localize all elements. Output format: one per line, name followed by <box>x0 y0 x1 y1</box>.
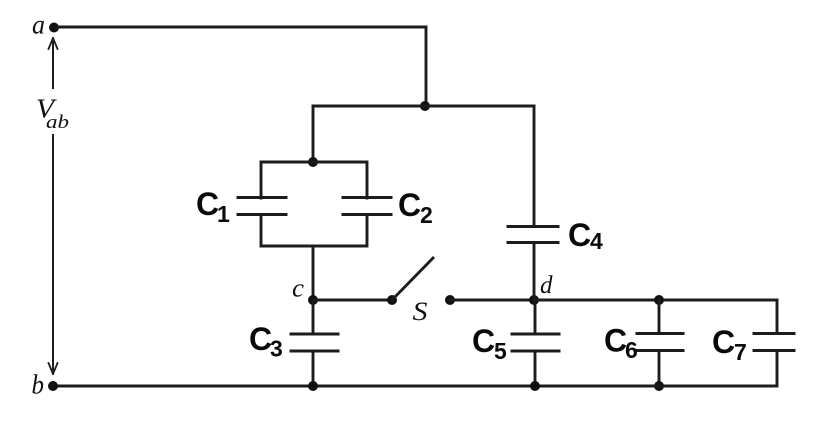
wire down to parallel combo <box>312 106 315 162</box>
svg-text:C: C <box>568 217 591 253</box>
svg-text:2: 2 <box>420 202 433 228</box>
svg-text:C: C <box>398 187 421 223</box>
wire parallel combo top bar <box>261 162 367 198</box>
Vab arrow head top <box>49 38 58 49</box>
svg-text:6: 6 <box>625 337 638 363</box>
switch S <box>387 258 455 326</box>
svg-text:d: d <box>540 272 553 299</box>
capacitor C6 <box>604 300 683 386</box>
junction dot top of branch wire <box>420 101 430 111</box>
svg-text:C: C <box>472 323 495 359</box>
Vab label <box>36 94 69 134</box>
svg-text:C: C <box>249 321 272 357</box>
wire switch to node d <box>450 299 534 302</box>
junction dot C5 bottom <box>530 381 540 391</box>
junction dot C3 bottom <box>308 381 318 391</box>
capacitor C7 <box>712 300 794 386</box>
wire top horizontal a to corner <box>58 26 426 29</box>
svg-text:4: 4 <box>590 228 603 254</box>
svg-text:1: 1 <box>217 201 230 227</box>
svg-text:b: b <box>32 370 45 400</box>
capacitor C2 <box>343 187 433 228</box>
Vab arrow head bottom <box>49 363 58 374</box>
svg-text:C: C <box>604 323 627 359</box>
Vab arrow line upper <box>52 42 54 88</box>
wire parallel combo bottom bar <box>261 215 367 247</box>
bottom wire <box>56 385 777 388</box>
Vab arrow line lower <box>52 135 54 370</box>
junction dot C6 bottom <box>654 381 664 391</box>
wire combo to node c <box>312 246 315 300</box>
svg-text:7: 7 <box>734 339 747 365</box>
svg-text:C: C <box>196 186 219 222</box>
svg-text:c: c <box>292 274 304 303</box>
capacitor C5 <box>472 300 559 386</box>
node d <box>529 295 539 305</box>
node b <box>48 381 58 391</box>
wire d to right end <box>534 299 777 302</box>
capacitor C3 <box>249 300 338 386</box>
svg-text:ab: ab <box>46 112 69 133</box>
junction dot C6 top <box>654 295 664 305</box>
node a <box>49 23 59 33</box>
wire top corner down <box>425 27 428 106</box>
capacitor C4 <box>508 106 603 300</box>
wire mid horizontal <box>313 105 534 108</box>
junction dot parallel combo top <box>308 157 318 167</box>
svg-text:3: 3 <box>270 336 283 362</box>
node c <box>308 295 318 305</box>
wire c to switch <box>313 299 392 302</box>
svg-text:C: C <box>712 324 735 360</box>
svg-text:S: S <box>413 297 428 326</box>
svg-text:5: 5 <box>494 338 507 364</box>
capacitor C1 <box>196 186 286 227</box>
svg-text:a: a <box>32 10 45 40</box>
